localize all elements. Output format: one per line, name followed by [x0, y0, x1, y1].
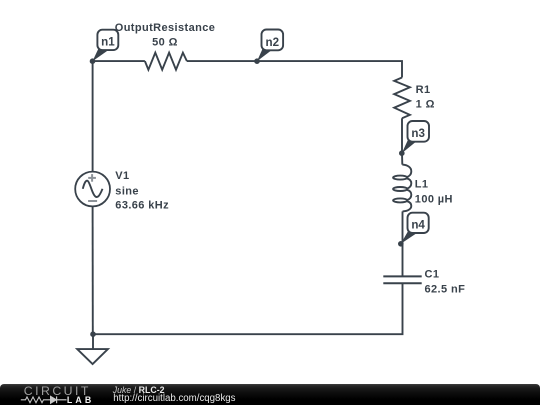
svg-text:1 Ω: 1 Ω: [416, 98, 435, 110]
CircuitLab logo diode symbol: [51, 396, 67, 403]
svg-text:LAB: LAB: [67, 395, 94, 405]
svg-text:n4: n4: [411, 218, 425, 231]
ground stub wire: [92, 334, 94, 349]
node n4 label bubble: [401, 213, 429, 244]
node n3 junction dot: [399, 150, 405, 156]
svg-text:C1: C1: [425, 268, 440, 280]
footer bar: [0, 384, 540, 405]
svg-text:50 Ω: 50 Ω: [152, 37, 178, 49]
svg-text:OutputResistance: OutputResistance: [115, 22, 216, 34]
wire L1 bottom to node n4 to C1 top plate: [402, 211, 404, 276]
svg-text:n1: n1: [101, 35, 115, 48]
node n2 junction dot: [254, 58, 260, 64]
svg-text:L1: L1: [415, 178, 429, 190]
wire C1 bottom plate to bottom-right corner to ground junction: [93, 283, 403, 334]
wire R1 bottom to node n3: [401, 118, 403, 164]
wire n1 to OutputResistance left lead: [93, 60, 145, 62]
ground junction dot: [90, 331, 96, 337]
svg-text:62.5 nF: 62.5 nF: [425, 283, 466, 295]
label OutputResistance value 50 ohm: [152, 37, 178, 49]
CircuitLab logo resistor squiggle: [21, 397, 51, 403]
resistor R1 zigzag: [394, 78, 410, 119]
svg-text:n2: n2: [266, 36, 280, 49]
ground symbol triangle: [77, 349, 108, 364]
svg-text:R1: R1: [416, 84, 431, 96]
label C1 name: [425, 268, 440, 280]
inductor L1 coil: [393, 165, 411, 212]
label V1 name: [115, 170, 129, 182]
wire OutputResistance to n2 to top-right corner to R1 top: [187, 61, 402, 77]
footer title Juke / RLC-2: [113, 386, 165, 395]
node n3 label bubble: [402, 121, 429, 153]
CircuitLab logo wordmark LAB: [67, 395, 94, 405]
label V1 type sine: [115, 185, 139, 197]
capacitor C1 top plate: [383, 275, 421, 277]
voltage source V1 circle: [75, 172, 110, 207]
label L1 name: [415, 178, 429, 190]
label R1 value 1 ohm: [416, 98, 435, 110]
svg-text:sine: sine: [115, 185, 139, 197]
resistor OutputResistance (50 ohm) zigzag: [145, 53, 187, 70]
label OutputResistance name: [115, 22, 216, 34]
wire n1 down to V1 top terminal: [92, 61, 94, 172]
svg-text:V1: V1: [115, 170, 129, 182]
svg-text:63.66 kHz: 63.66 kHz: [115, 199, 169, 211]
wire V1 bottom terminal to ground junction: [92, 206, 94, 334]
svg-text:100 µH: 100 µH: [415, 193, 453, 205]
node n2 label bubble: [257, 30, 283, 62]
CircuitLab logo wordmark CIRCUIT: [24, 384, 91, 398]
node n4 junction dot: [398, 241, 404, 247]
footer url: [113, 394, 235, 404]
node n1 label bubble: [93, 30, 119, 62]
capacitor C1 bottom plate: [383, 282, 421, 284]
label L1 value 100 uH: [415, 193, 453, 205]
svg-text:n3: n3: [411, 127, 425, 140]
V1 sine waveform: [83, 181, 103, 197]
label R1 name: [416, 84, 431, 96]
label C1 value 62.5 nF: [425, 283, 466, 295]
V1 plus sign: [88, 174, 96, 182]
label V1 frequency 63.66 kHz: [115, 199, 169, 211]
V1 minus sign: [88, 200, 97, 202]
node n1 junction dot: [90, 58, 96, 64]
